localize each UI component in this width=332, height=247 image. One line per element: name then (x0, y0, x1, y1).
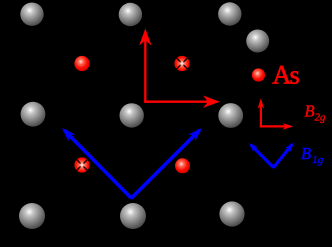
As atom below plane lower-left (crossed) (74, 157, 89, 172)
small red B2g axes vertical arrow (260, 101, 291, 128)
Fe atom top-left (20, 3, 43, 26)
svg-text:B: B (301, 144, 311, 163)
svg-text:1g: 1g (312, 154, 324, 166)
Fe atom middle-right (218, 103, 243, 128)
label B1g (301, 144, 324, 166)
As atom above plane upper-left (74, 56, 89, 71)
blue lattice vector left arrow (64, 130, 131, 198)
red axis vertical arrow (144, 32, 146, 103)
Fe atom middle-left (21, 102, 46, 127)
As atom above plane lower-center (175, 158, 190, 173)
As atom below plane upper-center (crossed) (174, 56, 189, 71)
Fe atom bottom-left (19, 203, 45, 229)
Fe atom top-right (218, 2, 241, 25)
svg-text:2g: 2g (315, 112, 327, 124)
small blue B1g V right arrow (274, 145, 293, 168)
svg-text:As: As (272, 59, 300, 89)
label As (272, 59, 300, 89)
label B2g (305, 102, 327, 124)
blue lattice vector right arrow (131, 130, 199, 198)
Fe atom bottom-center (120, 203, 146, 229)
svg-text:B: B (305, 102, 315, 121)
small red B2g axes horizontal arrow (260, 125, 291, 127)
red axes corner (1-Fe cell) (144, 32, 216, 103)
Fe atom bottom-right (219, 201, 244, 226)
Fe atom offset right (246, 30, 269, 53)
small blue B1g V left arrow (251, 145, 274, 168)
red axis horizontal arrow (144, 101, 216, 103)
As atom labelled (next to text As) (252, 68, 265, 81)
Fe atom middle-center (120, 103, 144, 127)
Fe atom top-center (119, 3, 142, 26)
